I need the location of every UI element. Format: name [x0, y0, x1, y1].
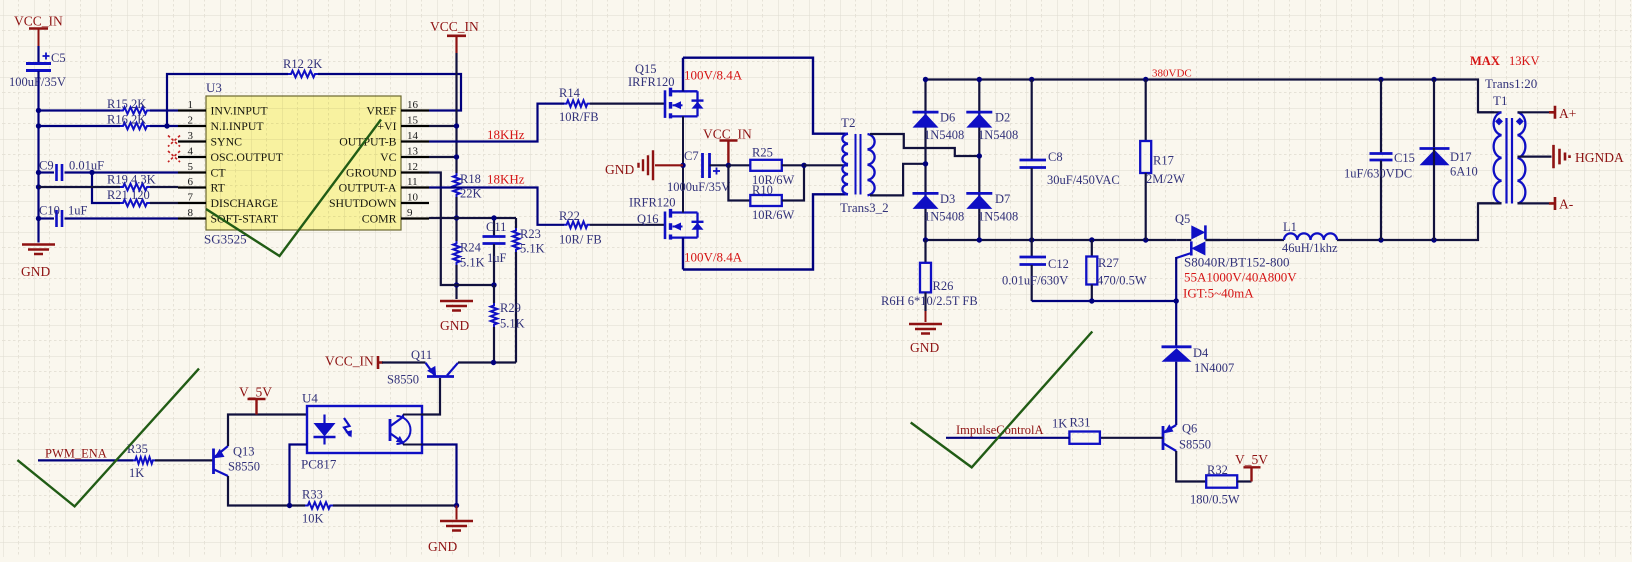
- U3 pin 9 COMR: [401, 217, 429, 219]
- svg-text:R18: R18: [460, 172, 481, 186]
- resistor R15 2K: [120, 107, 150, 114]
- U3 pin 3 SYNC: [178, 140, 206, 142]
- net label ImpulseControlA / wire: [946, 437, 1069, 439]
- wire pin12/GROUND to GND node: [429, 173, 457, 286]
- transistor Q13 S8550: [212, 449, 215, 475]
- svg-text:30uF/450VAC: 30uF/450VAC: [1047, 173, 1120, 187]
- resistor R29 5.1K: [493, 285, 495, 303]
- svg-text:1K: 1K: [1052, 417, 1067, 431]
- power port V_5V (R32): [1237, 480, 1251, 482]
- svg-text:HGNDA: HGNDA: [1575, 150, 1624, 165]
- wire OUTPUT-B pin14 to R14: [429, 104, 564, 142]
- svg-text:SYNC: SYNC: [211, 135, 243, 149]
- wire Q11 collector to R29/R23 node: [458, 361, 516, 363]
- diode D7 1N5408: [966, 192, 992, 195]
- U4 light arrow: [344, 418, 350, 436]
- wire Q15 drain to T2 primary top: [683, 58, 845, 134]
- resistor R21 120: [120, 200, 150, 207]
- check mark 3 (ImpulseControlA): [911, 332, 1093, 468]
- wire OUTPUT-A pin11 to R22: [429, 188, 564, 225]
- svg-text:R32: R32: [1207, 463, 1228, 477]
- svg-text:4: 4: [188, 146, 194, 158]
- resistor R14 10R: [564, 100, 590, 107]
- capacitor C5: [26, 64, 51, 71]
- svg-text:Q11: Q11: [411, 348, 432, 362]
- svg-text:D6: D6: [940, 111, 955, 125]
- svg-text:1uF: 1uF: [68, 204, 88, 218]
- capacitor C7 1000uF/35V: [703, 153, 710, 178]
- svg-text:PC817: PC817: [301, 457, 337, 472]
- wire VCC_IN to C5: [37, 46, 39, 62]
- junction dots VCC rail: [454, 123, 459, 128]
- svg-text:100V/8.4A: 100V/8.4A: [684, 250, 743, 265]
- svg-text:Trans3_2: Trans3_2: [840, 200, 889, 215]
- wire U4 pin2 to bottom net: [290, 445, 308, 506]
- capacitor C9 0.01uF: [57, 164, 63, 181]
- terminal A+: [1518, 111, 1550, 113]
- resistor R10 10R/6W: [728, 165, 750, 200]
- U3 pin 11 OUTPUT-A: [401, 186, 429, 188]
- ground GND (opto): [456, 506, 458, 520]
- optocoupler U4 PC817: [307, 406, 422, 453]
- svg-text:R12 2K: R12 2K: [283, 57, 322, 71]
- wire pin6 net: [39, 186, 121, 188]
- svg-text:380VDC: 380VDC: [1152, 68, 1192, 80]
- svg-text:Q16: Q16: [637, 212, 659, 226]
- svg-text:S8550: S8550: [1179, 438, 1211, 452]
- svg-text:R15 2K: R15 2K: [107, 97, 146, 111]
- wire R25/R10 to T2 center tap: [782, 164, 804, 166]
- resistor R25 10R/6W: [750, 160, 782, 171]
- svg-text:IRFR120: IRFR120: [628, 75, 675, 89]
- svg-text:A+: A+: [1559, 106, 1576, 121]
- svg-text:MAX: MAX: [1470, 54, 1500, 68]
- wire Q5 gate down to node: [1175, 257, 1177, 301]
- svg-text:46uH/1khz: 46uH/1khz: [1282, 241, 1338, 255]
- no-ERC marker pin4: [168, 151, 180, 162]
- wire Q13 emitter up to V_5V / U4 pin1: [228, 415, 307, 447]
- svg-text:55A1000V/40A800V: 55A1000V/40A800V: [1184, 270, 1297, 285]
- svg-text:5: 5: [188, 161, 194, 173]
- svg-text:C9: C9: [39, 159, 54, 173]
- svg-text:GND: GND: [910, 340, 939, 355]
- svg-text:16: 16: [407, 99, 419, 111]
- wire bridge left column: [924, 80, 926, 241]
- resistor R23 5.1K: [515, 218, 517, 228]
- U3 pin 15 +VI: [401, 125, 429, 127]
- net label PWM_ENA / wire: [38, 459, 133, 461]
- svg-text:18KHz: 18KHz: [487, 127, 525, 142]
- capacitor C10 1uF: [57, 210, 63, 227]
- svg-text:U3: U3: [206, 80, 222, 95]
- svg-text:1N5408: 1N5408: [924, 128, 964, 142]
- wire R12 feedback loop: [167, 74, 288, 126]
- svg-text:10R/ FB: 10R/ FB: [559, 233, 602, 247]
- svg-text:S8550: S8550: [228, 460, 260, 474]
- svg-text:L1: L1: [1283, 220, 1297, 234]
- ground HGNDA: [1518, 156, 1552, 158]
- svg-text:1N4007: 1N4007: [1194, 361, 1234, 375]
- svg-text:VCC_IN: VCC_IN: [325, 354, 374, 369]
- svg-text:14: 14: [407, 130, 419, 142]
- svg-text:13: 13: [407, 146, 419, 158]
- svg-text:T2: T2: [841, 115, 855, 130]
- wire GND node: [457, 284, 495, 286]
- wire pin1 net: [39, 109, 121, 111]
- svg-text:S8040R/BT152-800: S8040R/BT152-800: [1184, 255, 1289, 270]
- svg-text:15: 15: [407, 115, 419, 127]
- U4 phototransistor: [389, 419, 392, 441]
- svg-text:10K: 10K: [302, 512, 324, 526]
- svg-text:R17: R17: [1153, 154, 1174, 168]
- svg-text:10R/FB: 10R/FB: [559, 110, 599, 124]
- svg-text:INV.INPUT: INV.INPUT: [211, 104, 269, 118]
- capacitor C15 1uF/630VDC: [1380, 80, 1382, 154]
- diode D2 1N5408: [966, 111, 992, 114]
- svg-text:C11: C11: [486, 220, 506, 234]
- wire R22 to Q16 gate: [590, 224, 664, 226]
- wire DC- bottom rail: [926, 239, 1177, 241]
- transformer T2 secondary winding: [868, 134, 875, 195]
- junction node Q15 source / Q16 drain / GND / C7: [680, 163, 685, 168]
- power port V_5V (opto): [248, 399, 266, 415]
- svg-text:5.1K: 5.1K: [460, 256, 485, 270]
- svg-text:180/0.5W: 180/0.5W: [1190, 493, 1240, 507]
- svg-text:R26: R26: [933, 279, 954, 293]
- svg-text:GND: GND: [21, 264, 50, 279]
- svg-text:Q6: Q6: [1182, 422, 1197, 436]
- check mark 2 (over U3): [206, 120, 381, 257]
- capacitor C8 30uF/450VAC: [1031, 80, 1033, 160]
- thyristor Q5 S8040R: [1191, 225, 1205, 239]
- wire VCC_IN to Q11 emitter: [382, 361, 426, 363]
- wire U4 pin3 to GND: [422, 445, 457, 506]
- svg-text:C7: C7: [684, 149, 699, 163]
- svg-text:T1: T1: [1493, 93, 1507, 108]
- wire U4 pin4 to Q11 base: [422, 378, 440, 415]
- svg-text:R6H 6*10/2.5T FB: R6H 6*10/2.5T FB: [881, 294, 978, 308]
- svg-text:S8550: S8550: [387, 373, 419, 387]
- resistor R17 2M/2W: [1145, 80, 1147, 142]
- diode D4 1N4007: [1162, 345, 1192, 348]
- capacitor C11 1uF: [493, 218, 495, 236]
- wire gate node (C12/R27 bottom): [1032, 300, 1177, 302]
- junction D6/D3 AC node: [923, 161, 928, 166]
- resistor R22 10R: [564, 222, 590, 229]
- U3 pin 14 OUTPUT-B: [401, 140, 429, 142]
- U3 pin 6 RT: [178, 186, 206, 188]
- transformer T1 core: [1507, 118, 1513, 204]
- svg-text:2: 2: [188, 115, 194, 127]
- svg-text:R19 4.3K: R19 4.3K: [107, 173, 156, 187]
- inductor L1 46uH/1khz: [1284, 233, 1337, 240]
- svg-text:RT: RT: [211, 181, 226, 195]
- svg-text:C10: C10: [39, 204, 60, 218]
- svg-text:1N5408: 1N5408: [924, 210, 964, 224]
- ground GND (half-bridge node): [655, 164, 683, 166]
- svg-text:R31: R31: [1070, 416, 1091, 430]
- svg-text:D17: D17: [1450, 150, 1472, 164]
- svg-text:D4: D4: [1193, 346, 1209, 360]
- svg-text:OSC.OUTPUT: OSC.OUTPUT: [211, 150, 284, 164]
- svg-text:U4: U4: [302, 391, 318, 406]
- svg-text:1uF: 1uF: [487, 251, 507, 265]
- resistor R35 1K: [133, 457, 155, 464]
- wire C5 to GND rail: [37, 71, 39, 243]
- wire Q16 source to T2 primary bottom: [683, 194, 845, 269]
- svg-text:3: 3: [188, 130, 194, 142]
- no-ERC marker pin3: [168, 136, 180, 147]
- diode D6 1N5408: [913, 111, 939, 114]
- U3 pin 12 GROUND: [401, 171, 429, 173]
- wire pin2 net: [39, 125, 121, 127]
- svg-text:VCC_IN: VCC_IN: [14, 14, 63, 29]
- svg-text:Q15: Q15: [635, 62, 657, 76]
- ground GND (R26): [909, 324, 942, 334]
- transformer T2 primary winding: [842, 134, 848, 195]
- svg-text:0.01uF: 0.01uF: [69, 159, 104, 173]
- svg-text:0.01uF/630V: 0.01uF/630V: [1002, 274, 1068, 288]
- ground GND (top-left rail): [22, 245, 55, 255]
- transformer T1 polarity dots: [1495, 117, 1503, 125]
- transistor Q15 IRFR120 (N-MOSFET): [664, 90, 667, 118]
- svg-text:R29: R29: [500, 301, 521, 315]
- svg-text:Trans1:20: Trans1:20: [1485, 76, 1537, 91]
- svg-text:6: 6: [188, 176, 194, 188]
- wire pin5/CT net with C9: [39, 171, 55, 173]
- svg-text:2M/2W: 2M/2W: [1146, 172, 1185, 186]
- svg-text:GND: GND: [428, 539, 457, 554]
- svg-text:C12: C12: [1048, 257, 1069, 271]
- svg-text:1K: 1K: [129, 466, 144, 480]
- svg-text:5.1K: 5.1K: [520, 242, 545, 256]
- svg-text:VCC_IN: VCC_IN: [430, 19, 479, 34]
- wire R35 to Q13 base: [155, 459, 213, 461]
- wire D4 to Q6 collector: [1175, 362, 1177, 425]
- transistor Q16 IRFR120 (N-MOSFET): [664, 212, 667, 240]
- diode D3 1N5408: [913, 192, 939, 195]
- svg-text:5.1K: 5.1K: [500, 317, 525, 331]
- svg-text:COMR: COMR: [362, 212, 397, 226]
- U3 pin 10 SHUTDOWN: [401, 202, 429, 204]
- resistor R24 5.1K: [453, 241, 460, 265]
- svg-text:R25: R25: [752, 146, 773, 160]
- svg-text:PWM_ENA: PWM_ENA: [45, 447, 107, 461]
- svg-text:10R/6W: 10R/6W: [752, 208, 795, 222]
- svg-text:R16 2K: R16 2K: [107, 113, 146, 127]
- svg-text:R23: R23: [520, 227, 541, 241]
- resistor R31 1K: [1069, 432, 1100, 444]
- wire gate node down to D4: [1175, 301, 1177, 347]
- svg-text:C8: C8: [1048, 150, 1063, 164]
- svg-text:100V/8.4A: 100V/8.4A: [684, 68, 743, 83]
- wire pin5 node down to R21: [92, 173, 120, 204]
- resistor R26 R6H: [924, 240, 926, 263]
- transformer T1 primary winding: [1478, 111, 1502, 113]
- U3 pin 16 VREF: [401, 109, 429, 111]
- wire VCC rail: [455, 53, 457, 173]
- svg-text:N.I.INPUT: N.I.INPUT: [211, 119, 265, 133]
- U3 pin 4 OSC.OUTPUT: [178, 156, 206, 158]
- svg-text:11: 11: [407, 176, 418, 188]
- wire R31 to Q6 base: [1100, 437, 1163, 439]
- wire R21 to pin7: [150, 202, 178, 204]
- U3 pin 1 INV.INPUT: [178, 109, 206, 111]
- resistor R16 2K: [120, 123, 150, 130]
- svg-text:D7: D7: [995, 192, 1010, 206]
- svg-text:R33: R33: [302, 488, 323, 502]
- diode D17 6A10: [1433, 80, 1435, 149]
- svg-text:470/0.5W: 470/0.5W: [1097, 274, 1147, 288]
- svg-text:SG3525: SG3525: [204, 232, 247, 247]
- svg-text:V_5V: V_5V: [1235, 452, 1268, 467]
- svg-text:OUTPUT-A: OUTPUT-A: [339, 181, 397, 195]
- svg-text:8: 8: [188, 207, 194, 219]
- svg-text:VC: VC: [380, 150, 397, 164]
- junction D2/D7 AC node: [977, 153, 982, 158]
- U3 pin 5 CT: [178, 171, 206, 173]
- svg-text:R24: R24: [460, 241, 482, 255]
- svg-text:10: 10: [407, 192, 419, 204]
- svg-text:Q5: Q5: [1175, 212, 1190, 226]
- U4 LED: [323, 415, 325, 424]
- svg-text:9: 9: [407, 207, 413, 219]
- svg-text:GROUND: GROUND: [346, 166, 397, 180]
- svg-text:IRFR120: IRFR120: [629, 196, 676, 210]
- svg-text:6A10: 6A10: [1450, 165, 1478, 179]
- wire R33 to GND node: [333, 504, 457, 506]
- transformer T2 core: [856, 134, 861, 195]
- svg-text:GND: GND: [605, 162, 634, 177]
- svg-text:7: 7: [188, 192, 194, 204]
- svg-text:VCC_IN: VCC_IN: [703, 127, 752, 142]
- wire pin13 to rail: [429, 156, 457, 158]
- svg-text:GND: GND: [440, 318, 469, 333]
- svg-text:DISCHARGE: DISCHARGE: [211, 196, 279, 210]
- capacitor C12 0.01uF/630V: [1031, 240, 1033, 257]
- terminal A-: [1518, 202, 1550, 204]
- wire pin15 to rail: [429, 125, 457, 127]
- transistor Q6 S8550: [1162, 426, 1165, 450]
- svg-text:1N5408: 1N5408: [978, 128, 1018, 142]
- ground GND (mid): [440, 301, 473, 311]
- resistor R33 10K: [305, 502, 333, 509]
- op-amp/PWM IC U3 SG3525 body fill: [206, 96, 401, 230]
- svg-text:IGT:5~40mA: IGT:5~40mA: [1183, 286, 1254, 301]
- svg-text:Q13: Q13: [233, 445, 255, 459]
- svg-text:D3: D3: [940, 192, 955, 206]
- svg-text:C15: C15: [1394, 151, 1415, 165]
- svg-text:R14: R14: [559, 86, 581, 100]
- svg-text:1N5408: 1N5408: [978, 210, 1018, 224]
- junction node pin2/R12: [164, 123, 169, 128]
- wire T2 secondary bottom to D6/D3 node: [870, 164, 926, 196]
- svg-text:12: 12: [407, 161, 418, 173]
- svg-text:1000uF/35V: 1000uF/35V: [667, 180, 730, 194]
- svg-text:R22: R22: [559, 209, 580, 223]
- U3 pin 7 DISCHARGE: [178, 202, 206, 204]
- check mark 1 (bottom-left): [17, 369, 199, 507]
- U3 pin 13 VC: [401, 156, 429, 158]
- svg-text:SHUTDOWN: SHUTDOWN: [329, 196, 397, 210]
- junction node C9/pin5: [89, 170, 94, 175]
- svg-text:C5: C5: [51, 51, 66, 65]
- wire pin8 net with C10: [39, 217, 55, 219]
- svg-text:A-: A-: [1559, 197, 1574, 212]
- wire Q6 emitter to R32: [1176, 451, 1206, 482]
- svg-text:13KV: 13KV: [1509, 54, 1540, 68]
- resistor R19 4.3K: [120, 184, 150, 191]
- transistor Q11 S8550: [427, 375, 454, 378]
- svg-text:CT: CT: [211, 166, 227, 180]
- svg-text:18KHz: 18KHz: [487, 172, 525, 187]
- junction dots on left rail: [36, 108, 41, 113]
- svg-text:R27: R27: [1098, 256, 1119, 270]
- resistor R27 470/0.5W: [1091, 240, 1093, 257]
- resistor R12 2K: [288, 71, 318, 78]
- U3 pin 8 SOFT-START: [178, 217, 206, 219]
- U3 pin 2 N.I.INPUT: [178, 125, 206, 127]
- wire bridge right column: [978, 80, 980, 241]
- svg-text:R10: R10: [752, 183, 773, 197]
- svg-text:D2: D2: [995, 111, 1010, 125]
- resistor R18 22K: [453, 173, 460, 197]
- svg-text:1uF/630VDC: 1uF/630VDC: [1344, 167, 1412, 181]
- wire T2 secondary top to D2/D7 node: [870, 134, 979, 156]
- wire Q13 collector to bottom net: [228, 476, 305, 506]
- wire pin9/COMR node: [429, 217, 516, 219]
- wire 380VDC rail: [926, 80, 1495, 113]
- resistor R32 180/0.5W: [1206, 475, 1237, 487]
- transformer T1 secondary winding: [1518, 112, 1526, 203]
- svg-text:V_5V: V_5V: [239, 385, 272, 400]
- svg-text:1: 1: [188, 99, 194, 111]
- svg-text:VREF: VREF: [366, 104, 397, 118]
- wire VCC node to R25: [728, 164, 750, 166]
- wire R14 to Q15 gate: [590, 102, 664, 104]
